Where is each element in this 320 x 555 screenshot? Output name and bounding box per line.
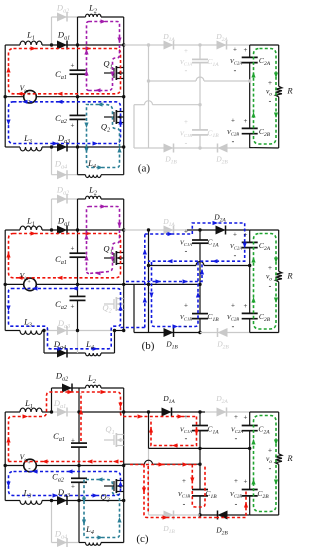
svg-text:+: + <box>244 46 248 54</box>
svg-text:-: - <box>185 138 188 147</box>
svg-text:+: + <box>182 477 186 485</box>
svg-text:-: - <box>185 247 188 256</box>
svg-text:-: - <box>234 66 237 75</box>
svg-text:-: - <box>232 322 235 331</box>
svg-text:+: + <box>184 228 188 236</box>
svg-text:+: + <box>234 477 238 485</box>
svg-text:+: + <box>71 62 75 70</box>
svg-text:-: - <box>185 434 188 443</box>
svg-text:+: + <box>71 437 75 445</box>
svg-text:-: - <box>269 97 272 106</box>
svg-text:-: - <box>269 464 272 473</box>
svg-text:+: + <box>71 303 75 311</box>
svg-text:-: - <box>185 322 188 331</box>
svg-text:+: + <box>234 413 238 421</box>
svg-text:+: + <box>244 478 248 486</box>
svg-text:R: R <box>286 453 293 463</box>
svg-text:+: + <box>244 414 248 422</box>
svg-text:+: + <box>184 413 188 421</box>
svg-text:-: - <box>269 282 272 291</box>
svg-text:-: - <box>235 499 238 508</box>
svg-text:R: R <box>286 271 293 281</box>
svg-text:(c): (c) <box>136 533 149 545</box>
svg-text:+: + <box>184 47 188 55</box>
svg-text:+: + <box>71 245 75 253</box>
svg-text:+: + <box>233 230 237 238</box>
svg-text:-: - <box>234 251 237 260</box>
svg-text:+: + <box>184 118 188 126</box>
svg-text:-: - <box>235 434 238 443</box>
svg-text:-: - <box>183 499 186 508</box>
svg-text:+: + <box>233 45 237 53</box>
svg-text:+: + <box>244 231 248 239</box>
svg-text:+: + <box>71 122 75 130</box>
svg-text:-: - <box>232 137 235 146</box>
svg-text:(a): (a) <box>138 163 151 175</box>
svg-text:-: - <box>185 66 188 75</box>
svg-text:(b): (b) <box>142 340 155 352</box>
svg-text:+: + <box>244 302 248 310</box>
svg-text:+: + <box>71 483 75 491</box>
svg-text:+: + <box>231 116 235 124</box>
svg-text:R: R <box>286 86 293 96</box>
svg-text:+: + <box>231 301 235 309</box>
svg-text:+: + <box>244 117 248 125</box>
svg-text:+: + <box>184 302 188 310</box>
